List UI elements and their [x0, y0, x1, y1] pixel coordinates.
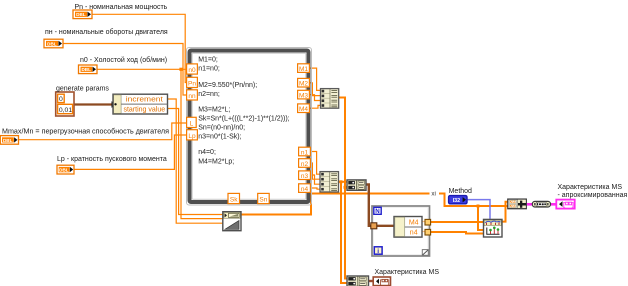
junction dot xi branch [477, 205, 480, 208]
terminal n1 on formula node [299, 147, 311, 156]
svg-text:Sn=(n0-nn)/n0;: Sn=(n0-nn)/n0; [198, 124, 245, 131]
svg-text:Характеристика MS: Характеристика MS [558, 184, 623, 191]
control terminal Mmax/Mn (DBL) [0, 136, 18, 145]
wire xi (right part after label gap) [439, 194, 508, 207]
wire for-loop tunnel B to interpolate [431, 232, 484, 234]
control terminal Lp (DBL) [57, 165, 74, 174]
svg-text:0,01: 0,01 [59, 107, 72, 114]
wire cluster constant to unbundle (brown) [74, 103, 113, 105]
svg-text:n0: n0 [188, 67, 196, 74]
indicator terminal Характеристика MS (brown) [373, 277, 390, 286]
terminal M4 on formula node [298, 104, 310, 113]
svg-text:]: ] [387, 279, 389, 286]
unbundle by name M4 n4 inside loop [394, 217, 422, 238]
svg-text:L: L [190, 120, 194, 127]
wire ramp output xi (left part) [241, 194, 430, 215]
terminal M2 on formula node [298, 78, 310, 87]
svg-text:DBL: DBL [76, 12, 86, 17]
svg-text:M2: M2 [299, 81, 308, 88]
wire n array: build array 2 out to bundle 1 [339, 181, 347, 183]
svg-text:xi: xi [431, 190, 435, 197]
bundle 1 (n,M to cluster) [347, 180, 366, 190]
svg-text:n1=n0;: n1=n0; [198, 66, 220, 73]
svg-text:Pn: Pn [188, 80, 196, 87]
svg-text:I32: I32 [453, 198, 461, 204]
svg-text:DBL: DBL [81, 67, 91, 72]
wire increment to ramp [168, 99, 223, 223]
control terminal Pn (DBL) [73, 10, 92, 19]
svg-text:Sk=Sn*(L+(((L**2)-1)**(1/2)));: Sk=Sn*(L+(((L**2)-1)**(1/2))); [198, 115, 289, 122]
terminal n4 on formula node [299, 184, 311, 193]
svg-text:]: ] [572, 202, 574, 209]
svg-text:starting value: starting value [123, 107, 165, 114]
wire M1 to build array [310, 68, 321, 90]
wire Pn to formula node [92, 14, 187, 82]
svg-text:Lp - кратность пускового момен: Lp - кратность пускового момента [57, 156, 167, 163]
svg-text:DBL: DBL [3, 138, 13, 143]
wire n3 to build array 2 [310, 175, 321, 184]
svg-text:M4: M4 [299, 106, 308, 113]
wire M4 to build array [310, 105, 321, 108]
wire M3 to build array [310, 95, 321, 101]
svg-text:Sn: Sn [259, 197, 267, 204]
svg-text:Lp: Lp [188, 133, 196, 140]
svg-text:DBL: DBL [59, 168, 69, 173]
wire for-loop tunnel A to interpolate [431, 221, 484, 223]
svg-text:Характеристика MS: Характеристика MS [375, 269, 440, 276]
svg-text:Pn - номинальная мощность: Pn - номинальная мощность [75, 4, 168, 11]
terminal Pn on formula node [187, 77, 198, 87]
terminal n0 on formula node [187, 64, 198, 74]
terminal Sk on formula node [228, 193, 240, 203]
wire nn to formula node [63, 44, 187, 96]
svg-text:Method: Method [449, 188, 472, 195]
wire stubs unbundle to tunnels (pale orange) [419, 222, 425, 232]
control terminal Method (I32) [449, 196, 467, 204]
build array 1 (M) [321, 89, 339, 109]
wire M array: build array 1 out, down to bottom bundle [339, 98, 347, 279]
svg-text:n3=n0*(1-Sk);: n3=n0*(1-Sk); [198, 133, 241, 140]
wire xi branch down to interpolate [478, 206, 484, 230]
wire Mmax/Mn to L terminal [19, 123, 187, 140]
build array 2 (n) [320, 172, 339, 192]
svg-text:increment: increment [126, 97, 163, 104]
svg-text:generate params: generate params [56, 85, 109, 92]
svg-text:Mmax/Mn = перегрузочная способ: Mmax/Mn = перегрузочная способность двиг… [2, 127, 169, 135]
svg-text:n2=nn;: n2=nn; [198, 91, 220, 98]
terminal M1 on formula node [298, 64, 310, 73]
terminal n2 on formula node [299, 159, 311, 168]
svg-text:n0 - Холостой ход (об/мин): n0 - Холостой ход (об/мин) [80, 56, 167, 64]
arrowhead into loop unbundle [396, 223, 403, 229]
unbundle by name increment / starting value [113, 94, 168, 114]
svg-text:nn: nn [188, 93, 196, 100]
terminal Sn on formula node [258, 193, 270, 203]
svg-text:- апроксимированная: - апроксимированная [558, 192, 628, 199]
svg-text:M1=0;: M1=0; [198, 56, 218, 63]
formula node structure [187, 48, 312, 206]
for loop i box [374, 247, 382, 255]
cluster constant generate params [56, 92, 74, 116]
svg-text:M1: M1 [299, 66, 308, 73]
svg-text:M4=M2*Lp;: M4=M2*Lp; [198, 158, 234, 165]
svg-text:M3: M3 [299, 92, 308, 99]
arrowhead into unbundle [112, 101, 118, 108]
wire M2 to build array [310, 83, 321, 96]
wire n array branch down to bottom bundle [341, 182, 347, 283]
interpolate 1d vi [484, 219, 503, 237]
control terminal n0 (DBL) [79, 65, 98, 74]
terminal n3 on formula node [299, 171, 311, 180]
svg-text:Sk: Sk [230, 197, 238, 204]
wire n0 branch to ramp [181, 69, 223, 218]
wire n2 to build array 2 [310, 163, 321, 179]
svg-text:пн - номинальные обороты двига: пн - номинальные обороты двигателя [45, 28, 168, 36]
terminal M3 on formula node [298, 90, 310, 99]
for loop structure [372, 206, 430, 256]
svg-text:0: 0 [59, 96, 63, 103]
junction dot M array branch [344, 186, 347, 189]
wire tunnel to unbundle inside loop (brown) [377, 225, 396, 227]
svg-text:M3=M2*L;: M3=M2*L; [198, 107, 230, 114]
formula node text [198, 56, 289, 165]
wire Lp to Lp terminal [73, 135, 187, 169]
svg-text:M2=9.550*(Pn/nn);: M2=9.550*(Pn/nn); [198, 82, 257, 89]
terminal nn on formula node [187, 90, 198, 100]
terminal L on formula node [187, 117, 197, 127]
svg-text:n4: n4 [301, 186, 309, 193]
wire interpolate yi out to bundle 3 [502, 202, 508, 222]
type conversion node [532, 201, 550, 207]
svg-text:n4=0;: n4=0; [198, 149, 216, 156]
wire M array branch into bundle 1 [345, 186, 347, 188]
svg-text:N: N [375, 208, 380, 215]
svg-text:n4: n4 [410, 230, 418, 237]
junction dot n0 [179, 68, 182, 71]
wire method (blue) [467, 200, 490, 219]
bundle bottom (to Характеристика MS) [347, 276, 369, 286]
svg-text:n2: n2 [301, 161, 309, 168]
wire n0 to formula node [97, 68, 187, 70]
wire bottom bundle to indicator (brown) [369, 280, 374, 282]
wire bundle 3 to conversion node (magenta) [526, 203, 532, 206]
control terminal nn (DBL) [44, 39, 63, 48]
wire n1 to build array 2 [310, 152, 321, 175]
for loop right tunnel A [425, 219, 431, 225]
terminal Lp on formula node [187, 130, 198, 140]
svg-text:n1: n1 [301, 149, 309, 156]
wire conversion node to indicator (magenta) [551, 203, 557, 206]
junction dot n array branch [340, 180, 343, 183]
ramp pattern vi [223, 212, 241, 231]
svg-text:n3: n3 [301, 173, 309, 180]
for loop left tunnel [371, 223, 377, 229]
for loop right tunnel B [425, 229, 431, 235]
wire n4 to build array 2 [310, 188, 321, 189]
svg-text:i: i [377, 248, 379, 255]
wire starting value to ramp [168, 109, 223, 215]
bundle 3 (xi, yi) [508, 199, 527, 209]
indicator terminal Характеристика MS - апроксимированная (magenta) [556, 200, 574, 209]
svg-text:DBL: DBL [47, 41, 57, 46]
wire bundle 1 to for loop (brown) [366, 185, 371, 226]
svg-text:M4: M4 [409, 220, 419, 227]
for loop N box [374, 207, 381, 215]
